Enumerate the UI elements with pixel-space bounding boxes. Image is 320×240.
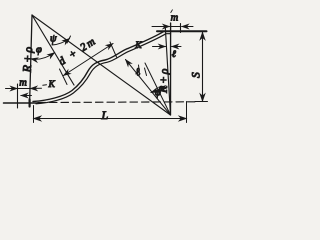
right fan ray r2 with arrowhead to curve — [126, 60, 171, 116]
angle arc phi left with arrows — [31, 53, 55, 60]
L left extension line — [33, 106, 35, 123]
short bottom reference line for S — [195, 101, 208, 103]
bottom-left m extension tick — [17, 84, 19, 108]
svg-text:K: K — [48, 80, 56, 90]
S-curve outer line of developed profile — [33, 31, 164, 101]
svg-text:K: K — [134, 41, 142, 51]
small accent mark above m top-right — [171, 10, 173, 13]
top-right m tick2 — [180, 24, 182, 33]
angle arc psi left with arrow — [52, 39, 70, 46]
svg-text:ψ: ψ — [50, 34, 57, 45]
svg-text:ℓ: ℓ — [134, 66, 141, 79]
extra left arrow row2 — [21, 95, 32, 97]
top-right ell dimension row — [153, 46, 166, 48]
svg-text:m: m — [19, 78, 27, 89]
bold foot tick of V_L at base — [29, 100, 31, 107]
line of centers from left apex to right apex — [32, 15, 171, 115]
svg-text:m: m — [171, 13, 179, 24]
dashed datum centerline — [38, 101, 196, 104]
base edge solid line bottom left — [4, 102, 39, 104]
svg-text:L: L — [101, 108, 109, 122]
d+2m upper extension tick — [110, 42, 117, 57]
svg-text:d + 2m: d + 2m — [57, 35, 99, 68]
top-right m dimension row — [152, 26, 170, 28]
bottom-left m dimension arrows row — [6, 88, 18, 90]
ell tick on r2 — [139, 65, 140, 74]
angle arc phi right with arrows — [151, 86, 165, 93]
ray left apex to curve (l2) — [32, 15, 74, 85]
S-curve inner parallel line of developed profile — [36, 34, 171, 104]
right R+rho ray r4 — [165, 27, 170, 112]
ell tick on r3 — [145, 68, 147, 76]
right fan ray r3 — [145, 63, 171, 115]
S dimension vertical line with arrows — [202, 32, 204, 101]
right vertical edge V_R — [170, 23, 172, 115]
svg-text:ℓ: ℓ — [172, 49, 176, 60]
svg-text:φ: φ — [155, 88, 161, 99]
wire left vertical radius line V_L (R+rho) — [30, 15, 32, 104]
svg-text:S: S — [191, 72, 203, 78]
top edge horizontal line right — [157, 30, 207, 32]
leader dash to K left — [43, 84, 47, 86]
L right extension line — [186, 102, 188, 123]
L dimension line with arrows — [34, 118, 187, 120]
tick crossing line of centers at psi arc end — [67, 36, 71, 43]
d+2m lower extension tick — [60, 69, 68, 85]
d+2m dimension line with arrows — [64, 44, 114, 76]
svg-text:φ: φ — [36, 45, 42, 56]
